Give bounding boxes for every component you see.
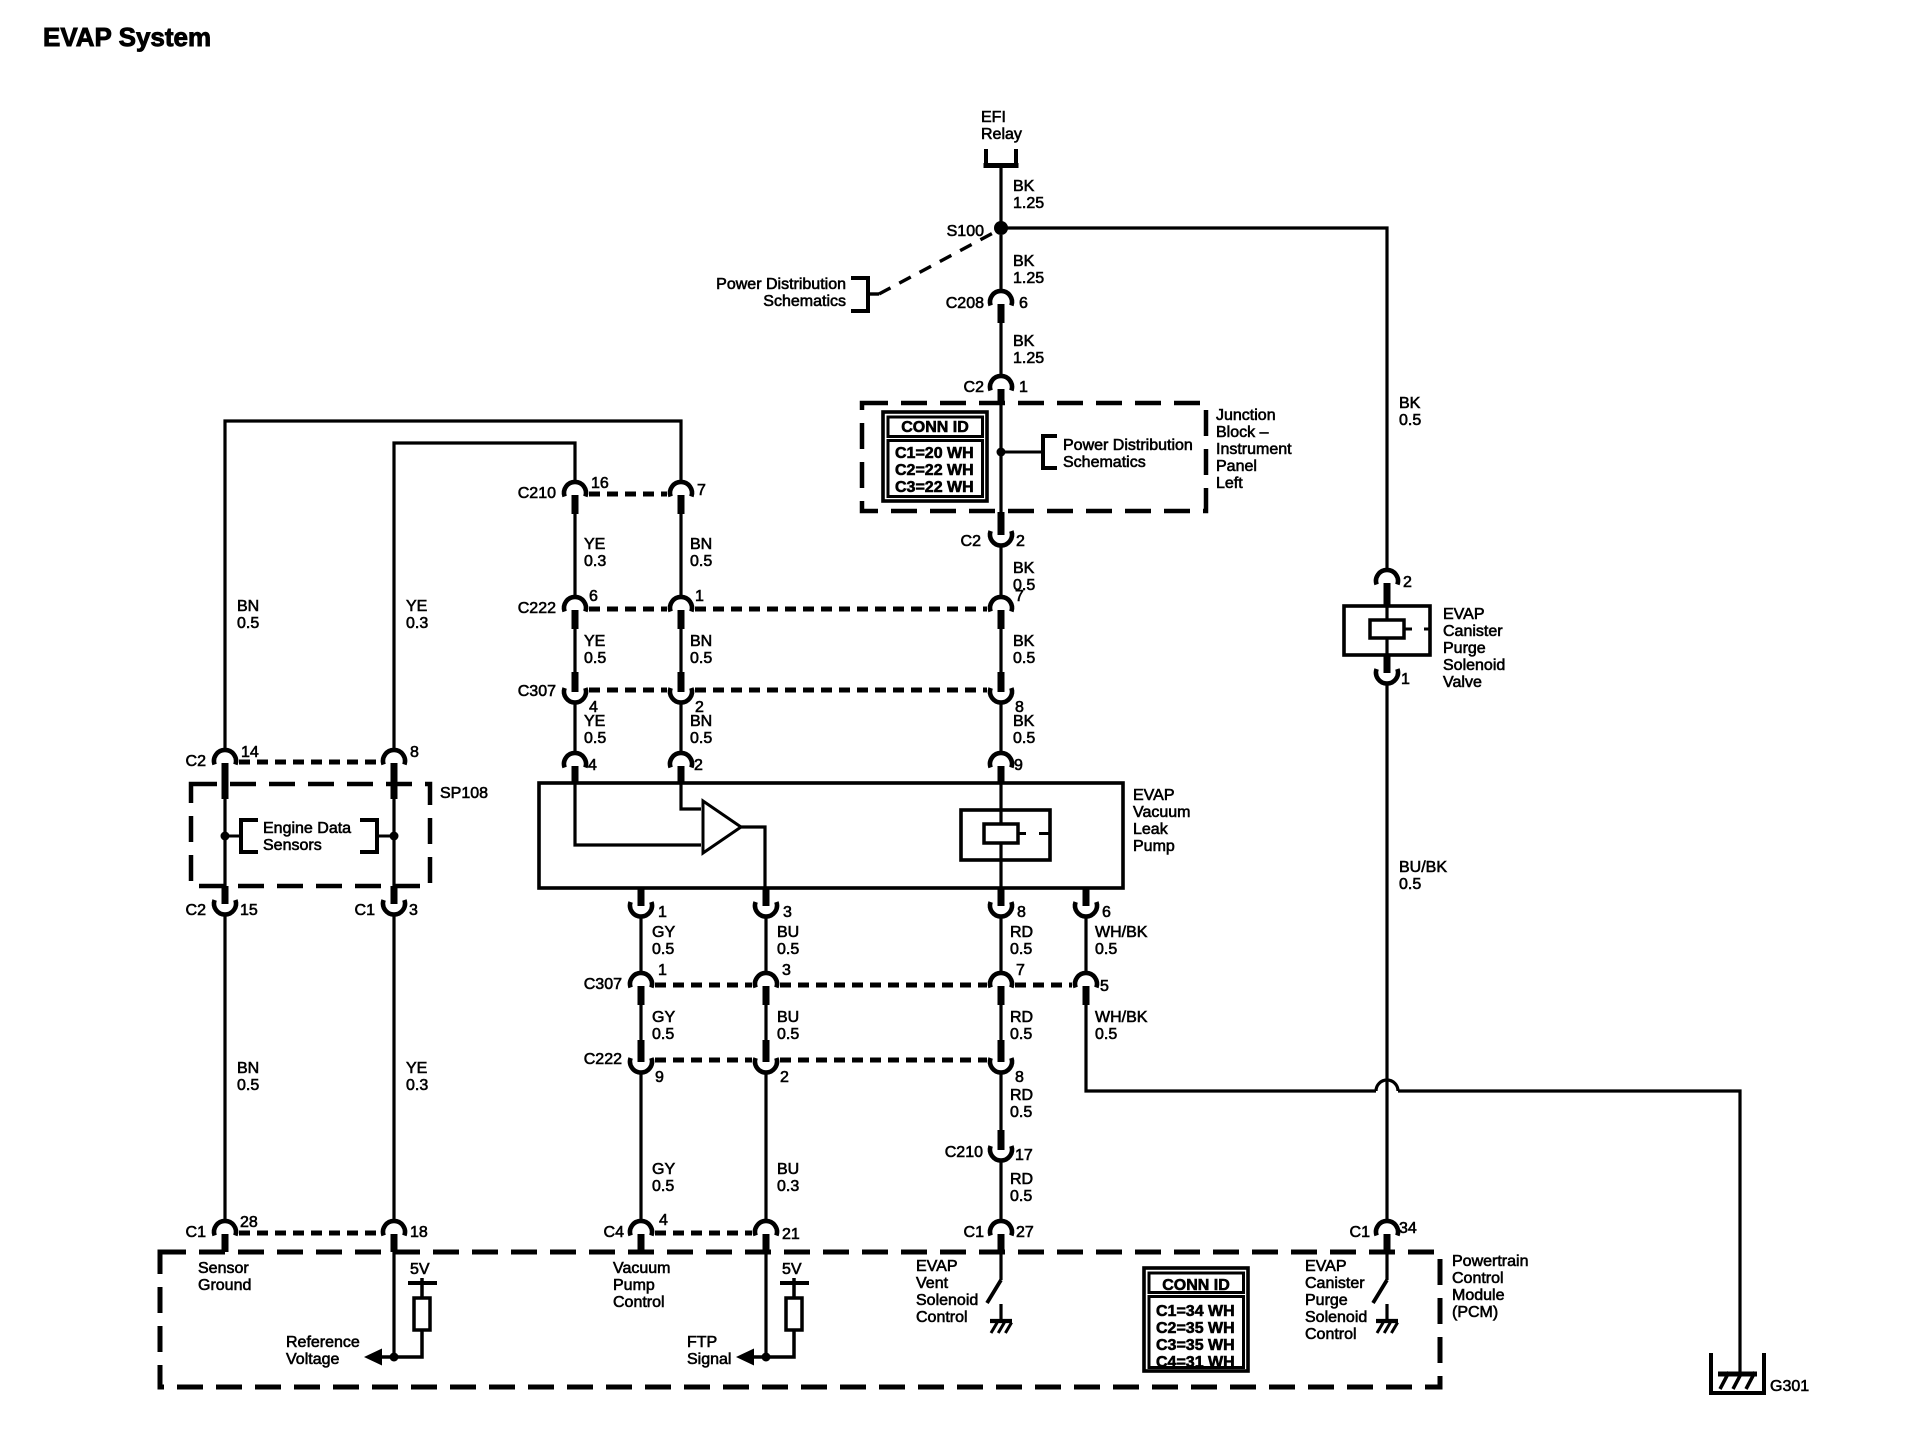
svg-text:7: 7 <box>1015 588 1024 605</box>
svg-text:3: 3 <box>782 962 791 979</box>
svg-text:BK: BK <box>1013 633 1035 650</box>
svg-text:Valve: Valve <box>1443 674 1482 691</box>
connector C222 pin 8 (lower) <box>990 1040 1012 1073</box>
svg-text:Relay: Relay <box>981 126 1022 143</box>
svg-text:BN: BN <box>690 633 712 650</box>
pump amplifier triangle <box>703 801 741 853</box>
dashed connector row C222 lower (9-2) <box>655 1058 752 1063</box>
wire C307-2 to pump pin 2 <box>679 701 682 754</box>
node engine data sensors right <box>390 832 399 841</box>
wire S100 to C208 <box>999 235 1002 292</box>
svg-text:0.5: 0.5 <box>1013 650 1035 667</box>
svg-text:Sensors: Sensors <box>263 837 322 854</box>
connector C222 pin 6 <box>564 597 586 629</box>
connector C210 pin 7 <box>670 482 692 514</box>
pump internal wire pin 9 feed <box>999 783 1002 812</box>
svg-text:6: 6 <box>589 588 598 605</box>
svg-text:C1=34 WH: C1=34 WH <box>1156 1303 1235 1320</box>
dashed connector row C222 (1-7) <box>695 607 987 612</box>
connector C307 pin 3 (lower) <box>755 973 777 1005</box>
svg-text:Sensor: Sensor <box>198 1260 249 1277</box>
svg-text:BN: BN <box>237 1060 259 1077</box>
wire inside SP108 left <box>223 784 226 886</box>
svg-text:BU: BU <box>777 924 799 941</box>
svg-text:RD: RD <box>1010 924 1033 941</box>
wire pin 18 inside PCM <box>392 1252 395 1357</box>
svg-text:WH/BK: WH/BK <box>1095 1009 1148 1026</box>
svg-text:EVAP: EVAP <box>1443 606 1485 623</box>
svg-text:5: 5 <box>1100 978 1109 995</box>
connector C1 pin 34 <box>1376 1221 1398 1252</box>
5V supply tick (reference) <box>408 1278 437 1298</box>
svg-text:0.5: 0.5 <box>1010 1104 1032 1121</box>
svg-text:0.5: 0.5 <box>1010 941 1032 958</box>
wire C210-7 to C222-1 <box>679 512 682 598</box>
CONN ID table (PCM) <box>1144 1268 1248 1371</box>
wire C222-7 to C307-8 <box>999 627 1002 672</box>
pump connector pin 8 <box>990 888 1012 917</box>
svg-text:GY: GY <box>652 924 675 941</box>
svg-text:C1: C1 <box>964 1224 985 1241</box>
svg-text:Ground: Ground <box>198 1277 251 1294</box>
wire WH/BK to ground run <box>1086 1003 1376 1091</box>
wire pin 27 to switch <box>999 1252 1002 1280</box>
svg-text:C1: C1 <box>355 902 376 919</box>
dashed connector row C2 (14-8) <box>239 760 380 765</box>
junction block dashed box <box>862 403 1206 511</box>
svg-text:0.5: 0.5 <box>690 553 712 570</box>
node FTP signal <box>762 1353 771 1362</box>
svg-text:6: 6 <box>1102 904 1111 921</box>
svg-text:C307: C307 <box>584 976 622 993</box>
svg-text:BU/BK: BU/BK <box>1399 859 1447 876</box>
wire C307-4 to pump pin 4 <box>573 701 576 754</box>
connector C2 pin 8 <box>383 750 405 799</box>
svg-text:C2: C2 <box>186 753 207 770</box>
wire pump8 to C307-7 <box>999 915 1002 974</box>
svg-text:Instrument: Instrument <box>1216 441 1292 458</box>
dashed connector row C307 (2-8) <box>695 688 987 693</box>
svg-text:0.5: 0.5 <box>1013 730 1035 747</box>
svg-text:C222: C222 <box>518 600 556 617</box>
svg-text:1: 1 <box>658 904 667 921</box>
svg-text:(PCM): (PCM) <box>1452 1304 1498 1321</box>
pump connector pin 2 <box>670 753 692 783</box>
dashed connector row C307 (4-2) <box>589 688 667 693</box>
svg-text:BK: BK <box>1013 560 1035 577</box>
svg-text:5V: 5V <box>410 1261 430 1278</box>
dashed connector row C210 <box>589 492 667 497</box>
wire hop over purge solenoid wire <box>1376 1080 1398 1091</box>
svg-text:9: 9 <box>655 1069 664 1086</box>
svg-text:Module: Module <box>1452 1287 1505 1304</box>
wire switch to ground (vent) <box>999 1304 1002 1320</box>
connector C222 pin 9 (lower) <box>630 1040 652 1073</box>
connector C4 pin 4 <box>630 1221 652 1252</box>
svg-text:1: 1 <box>1401 671 1410 688</box>
pump connector pin 1 <box>630 888 652 917</box>
svg-text:18: 18 <box>410 1224 428 1241</box>
wire inside junction block <box>999 404 1002 513</box>
svg-text:Vent: Vent <box>916 1275 949 1292</box>
svg-text:C2: C2 <box>186 902 207 919</box>
switch purge solenoid driver <box>1373 1280 1387 1303</box>
EFI relay terminal bracket <box>984 149 1019 166</box>
svg-text:2: 2 <box>1403 574 1412 591</box>
svg-text:BK: BK <box>1013 333 1035 350</box>
svg-text:Purge: Purge <box>1443 640 1486 657</box>
svg-text:2: 2 <box>780 1069 789 1086</box>
connector C2 pin 2 <box>990 512 1012 546</box>
wire C222-1 to C307-2 <box>679 627 682 672</box>
svg-text:0.5: 0.5 <box>1399 876 1421 893</box>
svg-text:C3=35 WH: C3=35 WH <box>1156 1337 1235 1354</box>
connector C1 pin 3 <box>383 886 405 915</box>
svg-text:0.5: 0.5 <box>1010 1026 1032 1043</box>
svg-text:YE: YE <box>584 633 605 650</box>
svg-text:Canister: Canister <box>1443 623 1503 640</box>
svg-text:C1: C1 <box>1350 1224 1371 1241</box>
node reference voltage <box>390 1353 399 1362</box>
svg-text:0.3: 0.3 <box>406 615 428 632</box>
svg-text:BK: BK <box>1013 178 1035 195</box>
svg-text:C222: C222 <box>584 1051 622 1068</box>
PCM dashed box <box>160 1252 1440 1387</box>
connector C1 pin 18 <box>383 1221 405 1252</box>
svg-text:C2: C2 <box>961 533 982 550</box>
svg-text:2: 2 <box>694 757 703 774</box>
svg-text:RD: RD <box>1010 1087 1033 1104</box>
svg-text:6: 6 <box>1019 295 1028 312</box>
svg-text:Schematics: Schematics <box>1063 454 1146 471</box>
svg-text:FTP: FTP <box>687 1334 717 1351</box>
wire C210-17 to C1-27 <box>999 1159 1002 1222</box>
svg-text:BN: BN <box>690 536 712 553</box>
svg-text:C210: C210 <box>518 485 556 502</box>
wire C2-2 to C222-7 <box>999 544 1002 598</box>
svg-text:17: 17 <box>1015 1147 1033 1164</box>
svg-text:EVAP System: EVAP System <box>43 22 211 52</box>
wire C307-7 to C222-8 <box>999 1003 1002 1040</box>
svg-text:0.5: 0.5 <box>1010 1188 1032 1205</box>
svg-text:34: 34 <box>1399 1220 1417 1237</box>
svg-text:C1: C1 <box>186 1224 207 1241</box>
svg-text:BN: BN <box>237 598 259 615</box>
pump connector pin 6 <box>1075 888 1097 917</box>
wire C222-9 to C4-4 <box>639 1071 642 1222</box>
ground (vent solenoid driver) <box>990 1321 1012 1333</box>
svg-text:Vacuum: Vacuum <box>613 1260 671 1277</box>
svg-text:0.5: 0.5 <box>777 941 799 958</box>
svg-text:C2: C2 <box>964 379 985 396</box>
wire valve to C1-34 <box>1385 682 1388 1222</box>
wire resistor to node (reference) <box>394 1330 422 1357</box>
wire C307-1 to C222-9 <box>639 1003 642 1040</box>
svg-text:EVAP: EVAP <box>1133 787 1175 804</box>
svg-text:0.5: 0.5 <box>237 615 259 632</box>
5V supply tick (FTP) <box>780 1278 809 1298</box>
svg-text:Control: Control <box>613 1294 665 1311</box>
svg-text:C208: C208 <box>946 295 984 312</box>
svg-text:Junction: Junction <box>1216 407 1276 424</box>
wire S100 to EVAP canister purge solenoid valve <box>1007 228 1387 571</box>
connector C307 pin 7 (lower) <box>990 973 1012 1005</box>
svg-text:EVAP: EVAP <box>1305 1258 1347 1275</box>
svg-text:3: 3 <box>409 902 418 919</box>
svg-text:1: 1 <box>658 962 667 979</box>
wire BN top run <box>225 421 681 751</box>
svg-text:Voltage: Voltage <box>286 1351 339 1368</box>
svg-text:3: 3 <box>783 904 792 921</box>
connector C222 pin 7 <box>990 597 1012 629</box>
svg-text:Control: Control <box>916 1309 968 1326</box>
svg-text:0.5: 0.5 <box>584 650 606 667</box>
svg-text:S100: S100 <box>947 223 984 240</box>
svg-text:BK: BK <box>1013 253 1035 270</box>
svg-text:1: 1 <box>1019 379 1028 396</box>
svg-text:Solenoid: Solenoid <box>1443 657 1505 674</box>
dashed connector row C4 (4-21) <box>655 1231 752 1236</box>
svg-text:CONN ID: CONN ID <box>1162 1277 1230 1294</box>
svg-text:Block –: Block – <box>1216 424 1269 441</box>
svg-text:Vacuum: Vacuum <box>1133 804 1191 821</box>
connector C222 pin 2 (lower) <box>755 1040 777 1073</box>
svg-text:C2=22 WH: C2=22 WH <box>895 462 974 479</box>
svg-text:0.5: 0.5 <box>584 730 606 747</box>
svg-text:GY: GY <box>652 1161 675 1178</box>
svg-text:1: 1 <box>695 588 704 605</box>
node junction-block tap <box>997 448 1006 457</box>
wire C208 to C2 <box>999 322 1002 377</box>
connector C2 pin 15 <box>214 886 236 915</box>
svg-text:0.3: 0.3 <box>584 553 606 570</box>
ground (purge solenoid driver) <box>1376 1321 1398 1333</box>
svg-text:2: 2 <box>1016 533 1025 550</box>
svg-text:EFI: EFI <box>981 109 1006 126</box>
pump connector pin 9 <box>990 753 1012 783</box>
svg-text:0.5: 0.5 <box>690 730 712 747</box>
svg-text:4: 4 <box>588 757 597 774</box>
connector C4 pin 21 <box>755 1221 777 1252</box>
pump connector pin 4 <box>564 753 586 783</box>
svg-text:0.5: 0.5 <box>652 1178 674 1195</box>
dashed connector row C222 lower (2-8) <box>780 1058 987 1063</box>
Power Distribution Schematics bracket (top) <box>851 276 879 313</box>
svg-text:YE: YE <box>406 1060 427 1077</box>
svg-text:8: 8 <box>1015 1069 1024 1086</box>
svg-text:WH/BK: WH/BK <box>1095 924 1148 941</box>
svg-text:RD: RD <box>1010 1009 1033 1026</box>
valve connector pin 1 <box>1376 655 1398 684</box>
svg-text:C307: C307 <box>518 683 556 700</box>
svg-text:Engine Data: Engine Data <box>263 820 351 837</box>
svg-text:15: 15 <box>240 902 258 919</box>
connector C307 pin 5 (lower) <box>1075 973 1097 1005</box>
wire pin 21 inside PCM <box>764 1252 767 1357</box>
pump internal wire pin 8 feed <box>999 860 1002 888</box>
dashed connector row C307 lower (1-3) <box>655 983 752 988</box>
svg-text:BK: BK <box>1399 395 1421 412</box>
svg-text:1.25: 1.25 <box>1013 350 1044 367</box>
resistor R (reference) <box>414 1298 430 1330</box>
svg-text:YE: YE <box>584 713 605 730</box>
pump internal wire pin4 to amplifier <box>575 783 701 845</box>
connector C1 pin 28 <box>214 1221 236 1252</box>
pump connector pin 3 <box>755 888 777 917</box>
connector C307 pin 1 (lower) <box>630 973 652 1005</box>
splice SP108 dashed box <box>191 784 430 886</box>
wire pump1 to C307-1 <box>639 915 642 974</box>
svg-text:0.5: 0.5 <box>652 1026 674 1043</box>
EVAP canister purge solenoid valve box <box>1344 606 1430 655</box>
pump internal wire pin2 to amplifier <box>681 783 701 809</box>
svg-text:0.5: 0.5 <box>777 1026 799 1043</box>
wire C210-16 to C222-6 <box>573 512 576 598</box>
svg-text:14: 14 <box>241 744 259 761</box>
connector C2 pin 14 <box>214 750 236 799</box>
connector C307 pin 8 <box>990 672 1012 703</box>
svg-text:Power Distribution: Power Distribution <box>716 276 846 293</box>
svg-text:YE: YE <box>584 536 605 553</box>
svg-text:BN: BN <box>690 713 712 730</box>
svg-text:Canister: Canister <box>1305 1275 1365 1292</box>
svg-text:4: 4 <box>659 1212 668 1229</box>
wire resistor to node (FTP) <box>766 1330 794 1357</box>
svg-text:0.3: 0.3 <box>406 1077 428 1094</box>
FTP signal arrow <box>736 1349 766 1366</box>
engine data sensors left bracket <box>229 818 258 854</box>
wire inside SP108 right <box>392 784 395 886</box>
svg-text:GY: GY <box>652 1009 675 1026</box>
svg-text:BU: BU <box>777 1009 799 1026</box>
node engine data sensors left <box>221 832 230 841</box>
wire C222-6 to C307-4 <box>573 627 576 672</box>
connector C222 pin 1 <box>670 597 692 629</box>
svg-text:Leak: Leak <box>1133 821 1169 838</box>
connector C1 pin 27 <box>990 1221 1012 1252</box>
connector C208 pin 6 <box>990 291 1012 323</box>
svg-text:1.25: 1.25 <box>1013 195 1044 212</box>
wire switch to ground (purge) <box>1385 1304 1388 1320</box>
svg-text:Pump: Pump <box>613 1277 655 1294</box>
connector C307 pin 2 <box>670 672 692 703</box>
svg-text:Purge: Purge <box>1305 1292 1348 1309</box>
svg-text:7: 7 <box>1016 962 1025 979</box>
tap wire to bracket <box>1005 451 1043 454</box>
wire pump3 to C307-3 <box>764 915 767 974</box>
svg-text:Solenoid: Solenoid <box>916 1292 978 1309</box>
connector C2 pin 1 <box>990 376 1012 404</box>
svg-text:Control: Control <box>1305 1326 1357 1343</box>
svg-text:Solenoid: Solenoid <box>1305 1309 1367 1326</box>
svg-text:C210: C210 <box>945 1144 983 1161</box>
dashed reference line to Power Distribution Schematics <box>879 232 995 294</box>
connector C307 pin 4 <box>564 672 586 703</box>
svg-text:9: 9 <box>1014 757 1023 774</box>
svg-text:EVAP: EVAP <box>916 1258 958 1275</box>
wire C2-15 to C1-28 <box>223 913 226 1222</box>
connector C210 pin 17 <box>990 1130 1012 1161</box>
svg-text:Power Distribution: Power Distribution <box>1063 437 1193 454</box>
engine data sensors right bracket <box>360 818 390 854</box>
svg-text:C3=22 WH: C3=22 WH <box>895 479 974 496</box>
switch vent solenoid driver <box>987 1280 1001 1303</box>
wire pin 34 to switch <box>1385 1252 1388 1280</box>
svg-text:0.5: 0.5 <box>1399 412 1421 429</box>
dashed connector row C1 (28-18) <box>239 1231 380 1236</box>
svg-text:0.5: 0.5 <box>652 941 674 958</box>
svg-text:Control: Control <box>1452 1270 1504 1287</box>
svg-text:0.5: 0.5 <box>1095 941 1117 958</box>
svg-text:0.5: 0.5 <box>1095 1026 1117 1043</box>
svg-text:28: 28 <box>240 1214 258 1231</box>
ground G301 <box>1711 1353 1764 1393</box>
svg-text:Signal: Signal <box>687 1351 731 1368</box>
svg-text:Reference: Reference <box>286 1334 360 1351</box>
dashed connector row C222 (6-1) <box>589 607 667 612</box>
svg-text:5V: 5V <box>782 1261 802 1278</box>
svg-text:1.25: 1.25 <box>1013 270 1044 287</box>
svg-text:CONN ID: CONN ID <box>901 419 969 436</box>
svg-text:8: 8 <box>1017 904 1026 921</box>
pump internal wire amplifier to pin 3 <box>741 827 765 888</box>
svg-text:SP108: SP108 <box>440 785 488 802</box>
svg-text:BK: BK <box>1013 713 1035 730</box>
pump solenoid coil <box>961 810 1050 860</box>
resistor R (FTP) <box>786 1298 802 1330</box>
svg-text:0.5: 0.5 <box>690 650 712 667</box>
svg-text:C4=31 WH: C4=31 WH <box>1156 1354 1235 1371</box>
svg-text:RD: RD <box>1010 1171 1033 1188</box>
reference voltage arrow <box>364 1349 394 1366</box>
wire C222-8 to C210-17 <box>999 1071 1002 1130</box>
svg-text:7: 7 <box>697 482 706 499</box>
svg-text:0.3: 0.3 <box>777 1178 799 1195</box>
svg-text:27: 27 <box>1016 1224 1034 1241</box>
wire EFI relay to S100 <box>999 168 1002 222</box>
svg-text:C2=35 WH: C2=35 WH <box>1156 1320 1235 1337</box>
EVAP vacuum leak pump box <box>539 783 1123 888</box>
dashed connector row C307 lower (7-5) <box>1015 983 1072 988</box>
svg-text:Schematics: Schematics <box>763 293 846 310</box>
svg-text:C4: C4 <box>604 1224 625 1241</box>
svg-text:8: 8 <box>410 744 419 761</box>
valve connector pin 2 <box>1376 570 1398 606</box>
svg-text:Left: Left <box>1216 475 1243 492</box>
wire pump6 to C307-5 <box>1084 915 1087 974</box>
svg-text:G301: G301 <box>1770 1378 1809 1395</box>
svg-text:C1=20 WH: C1=20 WH <box>895 445 974 462</box>
wire C307-8 to pump pin 9 <box>999 701 1002 754</box>
svg-text:Powertrain: Powertrain <box>1452 1253 1528 1270</box>
svg-text:21: 21 <box>782 1226 800 1243</box>
svg-text:BU: BU <box>777 1161 799 1178</box>
dashed connector row C307 lower (3-7) <box>780 983 987 988</box>
Power Distribution Schematics bracket (junction block) <box>1043 434 1057 470</box>
wire YE top run <box>394 443 575 751</box>
wire C222-2 to pin 21 <box>764 1071 767 1222</box>
svg-text:16: 16 <box>591 475 609 492</box>
wire C307-3 to C222-2 <box>764 1003 767 1040</box>
splice S100 <box>994 221 1008 235</box>
CONN ID table (junction block) <box>883 412 987 501</box>
wire C1-3 to pin 18 <box>392 913 395 1222</box>
connector C210 pin 16 <box>564 482 586 514</box>
svg-text:YE: YE <box>406 598 427 615</box>
svg-text:Panel: Panel <box>1216 458 1257 475</box>
svg-text:0.5: 0.5 <box>237 1077 259 1094</box>
svg-text:Pump: Pump <box>1133 838 1175 855</box>
